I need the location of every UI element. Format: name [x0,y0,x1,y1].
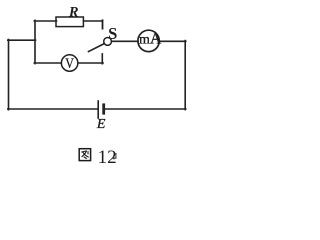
wire (resistor R right lead to top corner) [83,20,102,22]
svg-text:S: S [108,24,117,43]
switch S contact circle [104,38,112,46]
svg-text:V: V [65,55,74,72]
wire (switch S to milliammeter) [111,40,138,42]
resistor R [56,17,83,27]
svg-text:R: R [68,4,79,20]
battery E negative plate (short thick) [102,105,105,113]
label V (voltmeter face text) [65,55,74,72]
label R (resistor value label) [68,4,79,20]
caption text 12 [98,147,117,168]
wire (bottom corner tick up toward switch) [101,54,103,64]
battery E positive plate (long) [97,101,99,118]
node A (left junction bar of R/V parallel branches) [34,20,36,63]
caption paragraph return mark [113,154,116,159]
label mA (milliammeter face text) [139,31,162,48]
milliammeter mA [138,30,159,51]
wire (left horizontal into junction) [8,39,36,41]
svg-text:A: A [150,31,162,48]
svg-text:E: E [96,117,106,132]
wire (milliammeter to top-right corner) [160,40,186,42]
wire (right vertical side) [184,41,186,110]
wire (junction to voltmeter V left lead) [34,62,61,64]
switch S blade [89,44,105,52]
label S (switch label) [108,24,117,43]
wire (top corner tick down toward switch) [102,20,104,28]
wire (bottom left, left corner to battery) [8,108,98,110]
wire (bottom right, battery to right corner) [104,108,186,110]
wire (junction to resistor R left lead) [34,20,56,22]
caption glyph 图 (hand-drawn CJK character) [79,149,90,161]
wire (left vertical side) [8,40,10,110]
wire (voltmeter V right lead to bottom corner) [78,62,103,64]
voltmeter V1 [61,55,78,72]
label E (battery label) [96,117,106,132]
svg-text:m: m [139,32,150,47]
